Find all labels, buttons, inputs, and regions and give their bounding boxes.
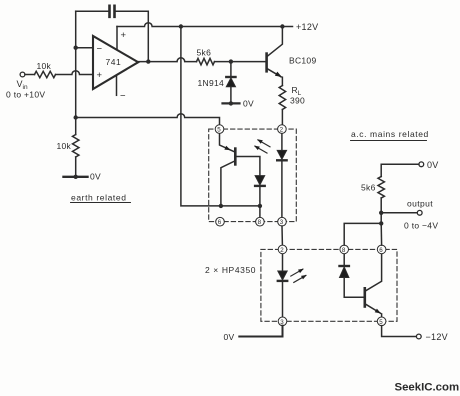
svg-text:5: 5 [217, 127, 221, 134]
wire 0V terminal to R5 [381, 164, 419, 176]
diode D5 (opto-2 internal) [343, 254, 345, 266]
svg-text:6: 6 [379, 247, 383, 254]
pin 8 (opto-1) [256, 217, 265, 226]
svg-text:5k6: 5k6 [361, 183, 376, 193]
wire opto-1 pin5 to phototransistor emitter [220, 133, 234, 151]
terminal output [417, 210, 422, 215]
op-amp positive supply pin [116, 27, 118, 50]
pin 5 (opto-2) [377, 317, 386, 326]
terminal -12V [416, 334, 421, 339]
wire R1 to op-amp + input with hop over feedback vertical [56, 71, 94, 75]
wire R3 to ground [75, 157, 77, 177]
phototransistor Q3 collector [365, 245, 382, 291]
light arrows (opto-1) [258, 140, 270, 147]
pin 3 (opto-1) [278, 217, 287, 226]
phototransistor Q2 collector [221, 161, 235, 206]
pin 5 (opto-1) [215, 125, 224, 134]
ground 0V (left) [64, 176, 88, 178]
svg-text:−: − [120, 91, 126, 102]
svg-text:8: 8 [342, 247, 346, 254]
wire collector net to diode column [344, 223, 381, 245]
wire opto-2 pin5 to -12V terminal [382, 326, 417, 337]
svg-text:+12V: +12V [296, 22, 318, 32]
terminal Vin [20, 72, 25, 77]
node: +12V rail to opto feed [179, 24, 183, 28]
wire R5 to output node [380, 198, 382, 223]
wire +12V rail with hop over capacitor vertical [117, 23, 293, 27]
svg-text:2 × HP4350: 2 × HP4350 [205, 265, 256, 275]
op-amp U1 741 [93, 36, 138, 89]
wire Vin to R1 [25, 74, 35, 76]
resistor R3 10k (to ground) [73, 135, 79, 158]
pin 2 (opto-1) [278, 125, 287, 134]
resistor R5 5k6 (mains) [378, 177, 384, 199]
svg-text:10k: 10k [37, 61, 52, 71]
terminal 0V (mains top) [419, 162, 424, 167]
wire RL to opto-1 pin 2 [281, 110, 283, 126]
svg-text:390: 390 [290, 96, 305, 106]
svg-text:1N914: 1N914 [198, 78, 225, 88]
wire opto-2 pin3 to 0V [239, 326, 282, 337]
wire capacitor top rail left [76, 10, 109, 12]
wire Q2 base to diode D2 [236, 157, 260, 175]
node: output junction [379, 211, 383, 215]
resistor RL 390 [279, 86, 285, 110]
node: BC109 collector on +12V rail [280, 24, 284, 28]
wire to output terminal [381, 212, 417, 214]
wire to op-amp - input [76, 47, 93, 49]
svg-text:8: 8 [258, 219, 262, 226]
svg-text:0V: 0V [224, 332, 235, 342]
wire op-amp output with hops [138, 58, 196, 62]
optocoupler U2 dashed package box [209, 129, 297, 222]
phototransistor Q3 (opto-2) base bar [363, 288, 366, 306]
LED D4 (opto-2) [282, 254, 284, 270]
wire bottom net to pin 8 [221, 206, 260, 218]
pin 8 (opto-2) [340, 245, 349, 254]
svg-text:5: 5 [379, 319, 383, 326]
wire opto-1 pin3 to opto-2 pin2 [281, 226, 283, 245]
node: output / feedback cap junction [146, 59, 150, 63]
svg-text:output: output [407, 199, 433, 209]
svg-text:earth related: earth related [71, 193, 127, 203]
svg-text:6: 6 [218, 219, 222, 226]
diode D1 1N914 (clamp) [230, 62, 232, 77]
svg-text:0 to −4V: 0 to −4V [404, 221, 438, 231]
phototransistor Q3 emitter with arrow [365, 304, 381, 314]
pin 6 (opto-2) [377, 245, 386, 254]
wire feedback vertical (node A, inverting input net) [75, 11, 77, 117]
phototransistor Q2 (opto-1) emitter arrow [224, 146, 230, 150]
svg-text:2: 2 [280, 247, 284, 254]
svg-text:0V: 0V [427, 160, 439, 170]
ground 0V (clamp) [223, 102, 240, 104]
svg-text:0V: 0V [90, 172, 101, 182]
node: emitter net junction (collector) [219, 204, 223, 208]
svg-text:SeekIC.com: SeekIC.com [395, 382, 460, 394]
node: clamp diode junction [229, 59, 233, 63]
LED D3 (opto-1) [281, 133, 283, 150]
wire opto feed vertical (from +12V down to opto-1 emitter net) [181, 27, 221, 206]
optocoupler U3 dashed package box [261, 249, 397, 321]
wire R2 to BC109 base [215, 61, 266, 63]
node: emitter net junction (diode) [258, 204, 262, 208]
node: inverting input junction [74, 46, 78, 50]
capacitor C1 (feedback) [110, 6, 115, 17]
wire capacitor top rail right [116, 11, 149, 61]
phototransistor Q2 base bar [234, 149, 237, 165]
diode D2 (opto-1 internal) [255, 176, 265, 185]
op-amp negative supply pin [116, 76, 118, 95]
wire node A to R3 [75, 118, 77, 135]
svg-text:741: 741 [106, 57, 122, 67]
node: inverting rail junction [74, 115, 78, 119]
resistor R2 5k6 (output) [197, 58, 215, 64]
svg-text:+: + [121, 30, 127, 41]
light arrows (opto-2) [291, 269, 303, 276]
pin 2 (opto-2) [278, 245, 287, 254]
svg-text:10k: 10k [57, 141, 72, 151]
svg-text:3: 3 [280, 219, 284, 226]
wire inverting rail to opto-1 pin 5 (with hop over opto feed) [76, 114, 220, 125]
svg-text:−: − [97, 43, 103, 54]
wire collector net down to pin 6 [380, 223, 382, 245]
svg-text:5k6: 5k6 [197, 48, 212, 58]
svg-text:0 to +10V: 0 to +10V [6, 90, 45, 100]
node: collector net junction [379, 221, 383, 225]
svg-text:BC109: BC109 [289, 56, 317, 66]
pin 3 (opto-2) [278, 317, 287, 326]
svg-text:2: 2 [280, 127, 284, 134]
svg-text:0V: 0V [243, 99, 254, 109]
svg-text:a.c. mains related: a.c. mains related [351, 129, 429, 139]
svg-text:+: + [97, 70, 103, 81]
svg-text:−12V: −12V [426, 332, 448, 342]
pin 6 (opto-1) [216, 217, 225, 226]
resistor R1 10k (input) [35, 71, 56, 77]
transistor Q1 BC109 [265, 54, 268, 72]
